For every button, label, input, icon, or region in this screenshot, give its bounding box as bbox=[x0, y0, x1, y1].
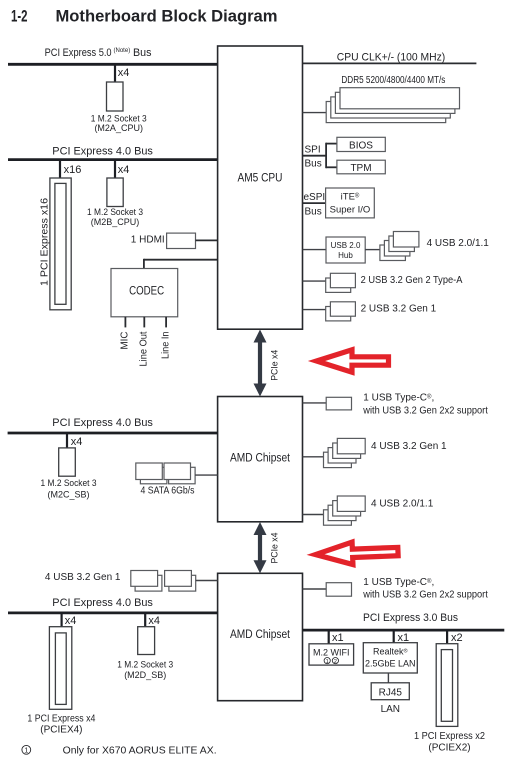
wire: bus4 to PCIEX4 slot bbox=[60, 613, 62, 626]
M.2 socket M2B_CPU bbox=[107, 178, 123, 207]
svg-text:4 USB 3.2 Gen 1: 4 USB 3.2 Gen 1 bbox=[45, 572, 121, 583]
svg-text:4 SATA 6Gb/s: 4 SATA 6Gb/s bbox=[141, 485, 195, 496]
svg-text:AMD Chipset: AMD Chipset bbox=[230, 629, 291, 641]
M.2 socket M2D_SB bbox=[138, 627, 155, 655]
red annotation arrow (upper) bbox=[317, 350, 389, 372]
wire: chipset2 to USB Type-C bbox=[303, 588, 327, 590]
svg-text:Bus: Bus bbox=[305, 158, 322, 169]
svg-text:with USB 3.2 Gen 2x2 support: with USB 3.2 Gen 2x2 support bbox=[362, 589, 488, 600]
BIOS box bbox=[337, 137, 385, 151]
wire: CPU CLK bbox=[303, 62, 477, 64]
svg-text:MIC: MIC bbox=[120, 332, 131, 350]
svg-text:x4: x4 bbox=[65, 615, 77, 627]
USB 3.2 Gen 2 Type-A stack bbox=[326, 273, 356, 292]
svg-text:TPM: TPM bbox=[350, 163, 371, 174]
svg-text:PCI Express 4.0 Bus: PCI Express 4.0 Bus bbox=[52, 146, 153, 158]
svg-text:1 HDMI: 1 HDMI bbox=[131, 234, 165, 245]
svg-text:x1: x1 bbox=[398, 632, 410, 644]
wire: CPU to USB 2.0 hub bbox=[303, 249, 327, 251]
CODEC box bbox=[111, 269, 178, 317]
wire: bus1 to M2A socket bbox=[114, 65, 116, 82]
svg-text:x4: x4 bbox=[71, 436, 83, 448]
svg-text:(M2C_SB): (M2C_SB) bbox=[47, 489, 89, 499]
M.2 WIFI box bbox=[309, 644, 354, 665]
USB 2.0 Hub box bbox=[326, 237, 365, 263]
RJ45 box bbox=[371, 683, 409, 700]
svg-text:2.5GbE LAN: 2.5GbE LAN bbox=[365, 659, 416, 669]
AM5 CPU box bbox=[218, 46, 303, 329]
svg-text:1 M.2 Socket 3: 1 M.2 Socket 3 bbox=[117, 660, 173, 670]
PCI Express x2 slot inner bbox=[441, 650, 452, 722]
svg-text:4 USB 2.0/1.1: 4 USB 2.0/1.1 bbox=[371, 499, 434, 510]
USB Type-C box (lower) bbox=[326, 583, 351, 597]
svg-text:PCI Express 4.0 Bus: PCI Express 4.0 Bus bbox=[52, 597, 153, 609]
bus: PCI Express 5.0 bbox=[8, 63, 218, 66]
USB 2.0/1.1 port stack (top) bbox=[380, 232, 419, 261]
svg-text:x2: x2 bbox=[451, 632, 463, 644]
svg-text:1 PCI Express x4: 1 PCI Express x4 bbox=[27, 714, 95, 725]
PCI Express x4 slot outer bbox=[49, 627, 71, 710]
red annotation arrow (lower) bbox=[315, 540, 398, 566]
svg-text:SPI: SPI bbox=[305, 144, 321, 155]
svg-text:4 USB 3.2 Gen 1: 4 USB 3.2 Gen 1 bbox=[371, 441, 447, 452]
svg-text:(PCIEX2): (PCIEX2) bbox=[428, 743, 470, 754]
svg-text:PCI Express 5.0: PCI Express 5.0 bbox=[45, 47, 112, 59]
USB Type-C box (upper) bbox=[326, 397, 351, 410]
svg-text:x4: x4 bbox=[118, 164, 130, 176]
svg-text:AM5 CPU: AM5 CPU bbox=[238, 173, 283, 185]
wire: CPU to CODEC vertical bbox=[143, 259, 145, 269]
svg-text:1 PCI Express x16: 1 PCI Express x16 bbox=[40, 198, 51, 286]
M.2 socket M2C_SB bbox=[59, 448, 76, 476]
svg-text:Super I/O: Super I/O bbox=[330, 205, 371, 216]
wire: bracket to TPM bbox=[326, 166, 337, 168]
svg-text:PCIe x4: PCIe x4 bbox=[270, 350, 281, 381]
PCI Express x2 slot outer bbox=[436, 644, 458, 727]
wire: chipset1 to USB Type-C bbox=[303, 402, 327, 404]
wire: CPU to SPI bracket bbox=[303, 155, 327, 157]
wire: HDMI to CPU bbox=[196, 239, 218, 241]
USB 3.2 Gen 1 stack bbox=[326, 302, 356, 321]
svg-text:CPU CLK+/- (100 MHz): CPU CLK+/- (100 MHz) bbox=[337, 52, 446, 64]
wire: CPU to DDR5 bbox=[303, 112, 328, 114]
svg-text:M.2 WIFI: M.2 WIFI bbox=[313, 647, 350, 657]
svg-text:1 USB Type-C®,: 1 USB Type-C®, bbox=[363, 393, 434, 404]
AMD chipset box (upper) bbox=[218, 397, 303, 522]
wire: CPU to USB3.2 Gen2 Type-A bbox=[303, 280, 327, 282]
label: footnote marks on M.2 WIFI bbox=[324, 658, 338, 665]
svg-text:Line Out: Line Out bbox=[139, 331, 150, 366]
wire: hub to USB2.0 stack bbox=[365, 249, 380, 251]
wire: Realtek to RJ45 bbox=[387, 673, 389, 683]
svg-text:1 M.2 Socket 3: 1 M.2 Socket 3 bbox=[41, 478, 97, 488]
svg-text:x16: x16 bbox=[64, 164, 82, 176]
wire: bus5 to M.2 WIFI bbox=[328, 631, 330, 644]
svg-text:LAN: LAN bbox=[381, 704, 400, 715]
wire: bus2 to PCIEX16 slot bbox=[59, 160, 61, 178]
wire: CODEC Line Out stub bbox=[143, 317, 145, 328]
bus: PCI Express 3.0 bbox=[303, 629, 505, 632]
wire: bracket to BIOS bbox=[326, 143, 337, 145]
USB 2.0/1.1 port stack (chipset1) bbox=[324, 496, 366, 525]
wire: CPU to iTE Super I/O bbox=[303, 202, 326, 204]
svg-text:4 USB 2.0/1.1: 4 USB 2.0/1.1 bbox=[427, 238, 490, 249]
wire: CPU to USB3.2 Gen1 bbox=[303, 309, 327, 311]
AMD chipset box (lower) bbox=[218, 573, 303, 700]
TPM box bbox=[337, 160, 385, 174]
svg-text:1 M.2 Socket 3: 1 M.2 Socket 3 bbox=[87, 207, 143, 217]
iTE Super I/O box bbox=[326, 188, 375, 218]
wire: bus4 to M2D socket bbox=[144, 613, 146, 626]
label: PCI Express 5.0 (Note) Bus bbox=[45, 47, 152, 59]
svg-text:x4: x4 bbox=[118, 67, 130, 79]
svg-text:PCI Express 3.0 Bus: PCI Express 3.0 Bus bbox=[363, 612, 458, 624]
wire: chipset1 to 4 USB 2.0/1.1 bbox=[303, 514, 325, 516]
svg-text:BIOS: BIOS bbox=[349, 140, 373, 151]
PCI Express x4 slot inner bbox=[55, 633, 66, 705]
svg-text:AMD Chipset: AMD Chipset bbox=[230, 453, 291, 465]
svg-text:PCIe x4: PCIe x4 bbox=[270, 533, 281, 564]
wire: SATA to chipset1 bbox=[195, 474, 218, 476]
bus: PCI Express 4.0 (chipset2) bbox=[8, 612, 218, 615]
svg-text:(M2A_CPU): (M2A_CPU) bbox=[94, 123, 143, 133]
M.2 socket M2A_CPU bbox=[107, 82, 124, 111]
wire: CODEC Line In stub bbox=[165, 317, 167, 328]
svg-text:(Note): (Note) bbox=[114, 47, 131, 54]
svg-text:x1: x1 bbox=[332, 632, 344, 644]
svg-text:(M2B_CPU): (M2B_CPU) bbox=[91, 217, 140, 227]
wire: CODEC MIC stub bbox=[124, 317, 126, 328]
svg-text:2 USB 3.2 Gen 2 Type-A: 2 USB 3.2 Gen 2 Type-A bbox=[361, 275, 463, 286]
svg-text:Motherboard Block Diagram: Motherboard Block Diagram bbox=[56, 6, 278, 25]
wire: SPI bracket vertical bbox=[325, 143, 327, 169]
PCI Express x16 slot inner bbox=[55, 183, 66, 304]
HDMI port box bbox=[167, 233, 196, 248]
svg-text:1 PCI Express x2: 1 PCI Express x2 bbox=[414, 731, 485, 742]
wire: bus5 to Realtek LAN bbox=[393, 631, 395, 643]
bus: PCI Express 4.0 (chipset1) bbox=[8, 432, 218, 435]
svg-text:Line In: Line In bbox=[161, 332, 172, 360]
wire: bus5 to PCIEX2 slot bbox=[446, 631, 448, 644]
wire: bus2 to M2B socket bbox=[114, 160, 116, 178]
wire: bus3 to M2C socket bbox=[66, 434, 68, 448]
svg-text:x4: x4 bbox=[148, 615, 160, 627]
wire: chipset1 to 4 USB 3.2 Gen1 bbox=[303, 456, 325, 458]
svg-text:1-2: 1-2 bbox=[11, 6, 28, 25]
bus: PCI Express 4.0 (CPU) bbox=[8, 158, 218, 161]
DDR5 DIMM stack bbox=[326, 88, 459, 123]
USB 3.2 Gen 1 port stack (chipset2) bbox=[131, 571, 196, 592]
Realtek 2.5GbE LAN box bbox=[363, 643, 417, 673]
arrow: CPU to chipset PCIe x4 bbox=[254, 330, 267, 397]
wire: USB stack to chipset2 bbox=[196, 580, 218, 582]
PCI Express x16 slot outer bbox=[50, 178, 71, 310]
SATA port stack bbox=[136, 463, 195, 484]
svg-text:Only for X670 AORUS ELITE AX.: Only for X670 AORUS ELITE AX. bbox=[63, 745, 217, 756]
svg-text:eSPI: eSPI bbox=[304, 192, 326, 203]
svg-text:PCI Express 4.0 Bus: PCI Express 4.0 Bus bbox=[52, 417, 153, 429]
svg-text:1: 1 bbox=[326, 659, 329, 665]
svg-text:Bus: Bus bbox=[133, 47, 152, 59]
svg-text:with USB 3.2 Gen 2x2 support: with USB 3.2 Gen 2x2 support bbox=[362, 405, 488, 416]
svg-text:Bus: Bus bbox=[305, 207, 322, 218]
svg-text:Hub: Hub bbox=[338, 251, 353, 260]
svg-text:Realtek®: Realtek® bbox=[373, 647, 408, 657]
svg-text:RJ45: RJ45 bbox=[379, 687, 403, 698]
svg-text:1 USB Type-C®,: 1 USB Type-C®, bbox=[363, 577, 434, 588]
svg-text:1: 1 bbox=[24, 746, 28, 755]
svg-text:(M2D_SB): (M2D_SB) bbox=[124, 670, 166, 680]
footnote marker (1) bbox=[22, 745, 31, 754]
USB 3.2 Gen 1 port stack (chipset1) bbox=[324, 438, 366, 467]
svg-text:USB 2.0: USB 2.0 bbox=[331, 241, 361, 250]
arrow: chipset1 to chipset2 PCIe x4 bbox=[254, 522, 267, 573]
wire: CPU to CODEC horizontal bbox=[144, 259, 218, 261]
svg-text:2 USB 3.2 Gen 1: 2 USB 3.2 Gen 1 bbox=[361, 303, 437, 314]
svg-text:DDR5 5200/4800/4400 MT/s: DDR5 5200/4800/4400 MT/s bbox=[341, 75, 445, 86]
svg-text:2: 2 bbox=[334, 659, 337, 665]
svg-text:CODEC: CODEC bbox=[129, 285, 164, 297]
svg-text:(PCIEX4): (PCIEX4) bbox=[40, 725, 82, 736]
